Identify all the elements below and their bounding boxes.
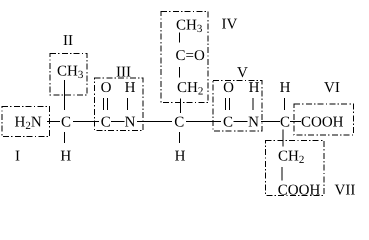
svg-text:H: H — [249, 80, 260, 96]
box II — [50, 54, 87, 96]
bond CH3-C1 — [64, 80, 66, 110]
svg-text:II: II — [63, 33, 73, 49]
svg-text:C: C — [223, 114, 233, 130]
svg-text:H: H — [175, 149, 186, 165]
box V — [213, 81, 262, 132]
svg-text:C: C — [174, 114, 184, 130]
svg-text:H: H — [125, 80, 136, 96]
box IV — [161, 12, 208, 103]
svg-text:C: C — [101, 114, 111, 130]
bond C-N (V) — [234, 121, 248, 123]
svg-text:H: H — [60, 149, 71, 165]
bond C1-C(III) — [73, 121, 99, 123]
svg-text:N: N — [125, 114, 136, 130]
double bond O=C (V) — [225, 98, 227, 110]
double bond O=C (III) — [103, 98, 105, 110]
svg-text:N: N — [248, 114, 259, 130]
svg-text:C: C — [61, 114, 71, 130]
bond CH2-C2 — [180, 99, 182, 114]
svg-text:O: O — [223, 80, 234, 96]
box III — [95, 78, 144, 131]
bond C=O-CH2 (IV) — [179, 67, 181, 78]
svg-text:O: O — [101, 80, 112, 96]
bond H-N (III) — [127, 98, 129, 110]
bond C1-H — [64, 132, 66, 143]
svg-text:C: C — [280, 114, 290, 130]
bond CH3-C=O (IV) — [179, 33, 181, 43]
svg-text:C=O: C=O — [176, 48, 205, 64]
svg-text:COOH: COOH — [301, 114, 344, 130]
svg-text:CH3: CH3 — [176, 18, 203, 36]
box I — [2, 107, 50, 137]
bond C-N (III) — [111, 121, 125, 123]
svg-text:H2N: H2N — [15, 114, 42, 132]
svg-text:CH3: CH3 — [57, 64, 84, 82]
bond CH2-COOH (VII) — [281, 167, 283, 181]
svg-text:VI: VI — [324, 80, 340, 96]
svg-text:V: V — [237, 65, 248, 81]
svg-text:CH2: CH2 — [278, 148, 304, 166]
bond N(III)-C2 — [137, 121, 172, 123]
bond N(V)-C3 — [261, 121, 280, 123]
bond H2N-C1 — [47, 121, 60, 123]
bond H-N (V) — [252, 98, 254, 110]
svg-text:H: H — [280, 80, 291, 96]
box VI — [294, 104, 354, 135]
bond C3-CH2 (VII) — [282, 130, 284, 147]
bond C3-COOH (VI) — [290, 121, 301, 123]
svg-text:VII: VII — [335, 183, 356, 199]
bond C2-C(V) — [186, 121, 221, 123]
box VII — [266, 141, 325, 196]
svg-text:IV: IV — [222, 17, 238, 33]
svg-text:I: I — [15, 149, 20, 165]
svg-text:CH2: CH2 — [177, 80, 203, 98]
svg-text:COOH: COOH — [278, 183, 321, 199]
bond H-C3 — [284, 98, 286, 110]
svg-text:III: III — [116, 65, 131, 81]
bond C2-H — [179, 132, 181, 143]
